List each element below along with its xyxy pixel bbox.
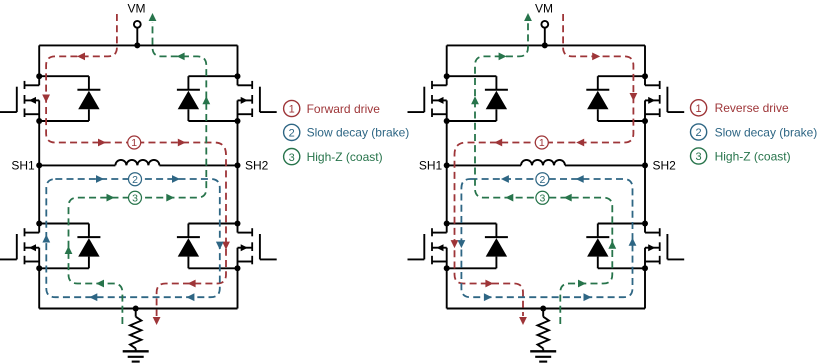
svg-text:SH2: SH2: [245, 159, 269, 173]
node drain Q8: [642, 221, 648, 227]
node source Q2: [235, 118, 241, 124]
node SH2 A: [235, 162, 241, 168]
wire left rail mid (SH1 column) A: [38, 121, 40, 224]
wire path1 reverse-drive (red dashed) B: [455, 14, 634, 316]
node SH1 A: [36, 162, 42, 168]
node source Q7: [444, 265, 450, 271]
svg-text:Slow decay (brake): Slow decay (brake): [307, 126, 410, 140]
node path-number 2 A: [129, 173, 142, 186]
ground A: [123, 351, 149, 361]
svg-text:High-Z (coast): High-Z (coast): [715, 149, 791, 163]
svg-text:VM: VM: [128, 2, 146, 16]
node source Q6: [642, 118, 648, 124]
node SH2 B: [642, 162, 648, 168]
node SH1 B: [444, 162, 450, 168]
wire SH1 to inductor A: [39, 164, 115, 166]
VM terminal B: [541, 21, 548, 46]
legend item 1: Forward drive: [284, 100, 381, 116]
diode D6 (body diode): [586, 76, 645, 121]
legend item 2: Slow decay (brake): [284, 124, 410, 140]
wire left rail upper A: [38, 45, 40, 76]
node source Q4: [235, 265, 241, 271]
path1 arrows A: [42, 53, 230, 326]
node VM junction B: [542, 42, 548, 48]
wire path2 slow-decay loop (blue dashed) A: [46, 179, 220, 297]
transistor Q7 (low-side left): [408, 224, 447, 269]
legend item 2: Slow decay (brake): [691, 124, 818, 140]
node drain Q3: [36, 221, 42, 227]
svg-text:1: 1: [289, 104, 295, 116]
svg-text:3: 3: [539, 193, 545, 205]
wire SH1 to inductor B: [447, 164, 521, 166]
wire top rail A: [39, 44, 237, 46]
svg-text:3: 3: [132, 193, 138, 205]
wire right rail lower B: [644, 268, 646, 308]
svg-text:2: 2: [289, 128, 295, 140]
wire right rail mid (SH2 column) A: [237, 121, 239, 224]
svg-text:VM: VM: [535, 2, 553, 16]
node path-number 2 B: [536, 173, 549, 186]
path3 arrows B: [471, 13, 616, 287]
wire bottom rail A: [39, 308, 237, 310]
resistor RB (sense): [538, 309, 549, 352]
wire path1 forward-drive (red dashed) A: [46, 14, 226, 316]
wire left rail lower B: [446, 268, 448, 308]
transistor Q2 (high-side right): [238, 76, 277, 121]
wire top rail B: [447, 44, 645, 46]
wire path2 slow-decay loop (blue dashed) B: [461, 179, 632, 297]
VM terminal A: [134, 21, 141, 46]
svg-text:3: 3: [289, 152, 295, 164]
transistor Q6 (high-side right): [645, 76, 684, 121]
svg-text:High-Z (coast): High-Z (coast): [307, 150, 383, 164]
svg-text:SH2: SH2: [653, 159, 677, 173]
node source Q8: [642, 265, 648, 271]
svg-text:3: 3: [696, 151, 702, 163]
wire left rail lower A: [38, 268, 40, 308]
node drain Q1: [36, 73, 42, 79]
ground B: [530, 351, 556, 361]
svg-text:2: 2: [696, 127, 702, 139]
wire inductor to SH2 A: [159, 164, 237, 166]
path2 arrows A: [42, 175, 223, 301]
svg-text:Reverse drive: Reverse drive: [715, 101, 789, 115]
node path-number 1 A: [128, 136, 141, 149]
transistor Q3 (low-side left): [0, 224, 39, 269]
wire left rail mid (SH1 column) B: [446, 121, 448, 224]
diode D4 (body diode): [177, 224, 238, 269]
legend item 1: Reverse drive: [691, 100, 789, 116]
diode D2 (body diode): [177, 76, 238, 121]
svg-text:1: 1: [696, 103, 702, 115]
diode D3 (body diode): [39, 224, 100, 269]
node drain Q7: [444, 221, 450, 227]
wire right rail upper B: [644, 45, 646, 76]
wire left rail upper B: [446, 45, 448, 76]
wire right rail mid (SH2 column) B: [644, 121, 646, 224]
wire path3 coast (green dashed) B: [475, 22, 612, 324]
node sense A: [133, 306, 139, 312]
node sense B: [540, 306, 546, 312]
node source Q5: [444, 118, 450, 124]
node drain Q2: [235, 73, 241, 79]
node source Q1: [36, 118, 42, 124]
diode D5 (body diode): [447, 76, 508, 121]
transistor Q1 (high-side left): [0, 76, 39, 121]
transistor Q5 (high-side left): [408, 76, 447, 121]
node path-number 1 B: [535, 136, 548, 149]
transistor Q4 (low-side right): [238, 224, 277, 269]
node path-number 3 B: [536, 191, 549, 204]
svg-text:SH1: SH1: [11, 159, 35, 173]
svg-text:SH1: SH1: [419, 159, 443, 173]
svg-text:Forward drive: Forward drive: [307, 102, 381, 116]
node source Q3: [36, 265, 42, 271]
svg-text:2: 2: [539, 174, 545, 186]
wire right rail lower A: [237, 268, 239, 308]
inductor LB (motor winding): [521, 160, 565, 166]
svg-text:1: 1: [131, 137, 137, 149]
diode D1 (body diode): [39, 76, 100, 121]
svg-text:Slow decay (brake): Slow decay (brake): [715, 125, 818, 139]
wire inductor to SH2 B: [565, 164, 645, 166]
node drain Q4: [235, 221, 241, 227]
node path-number 3 A: [129, 191, 142, 204]
diode D8 (body diode): [586, 224, 645, 269]
legend item 3: High-Z (coast): [284, 149, 383, 165]
wire path3 coast (green dashed) A: [69, 22, 207, 324]
node drain Q6: [642, 73, 648, 79]
transistor Q8 (low-side right): [645, 224, 684, 269]
resistor RA (sense): [130, 309, 141, 352]
svg-text:2: 2: [132, 174, 138, 186]
diode D7 (body diode): [447, 224, 508, 269]
node drain Q5: [444, 73, 450, 79]
svg-text:1: 1: [539, 137, 545, 149]
node VM junction A: [134, 42, 140, 48]
wire bottom rail B: [447, 308, 645, 310]
legend item 3: High-Z (coast): [691, 148, 791, 164]
inductor LA (motor winding): [115, 160, 159, 166]
wire right rail upper A: [237, 45, 239, 76]
path3 arrows A: [65, 13, 211, 287]
path2 arrows B: [458, 175, 637, 301]
path1 arrows B: [451, 53, 638, 326]
